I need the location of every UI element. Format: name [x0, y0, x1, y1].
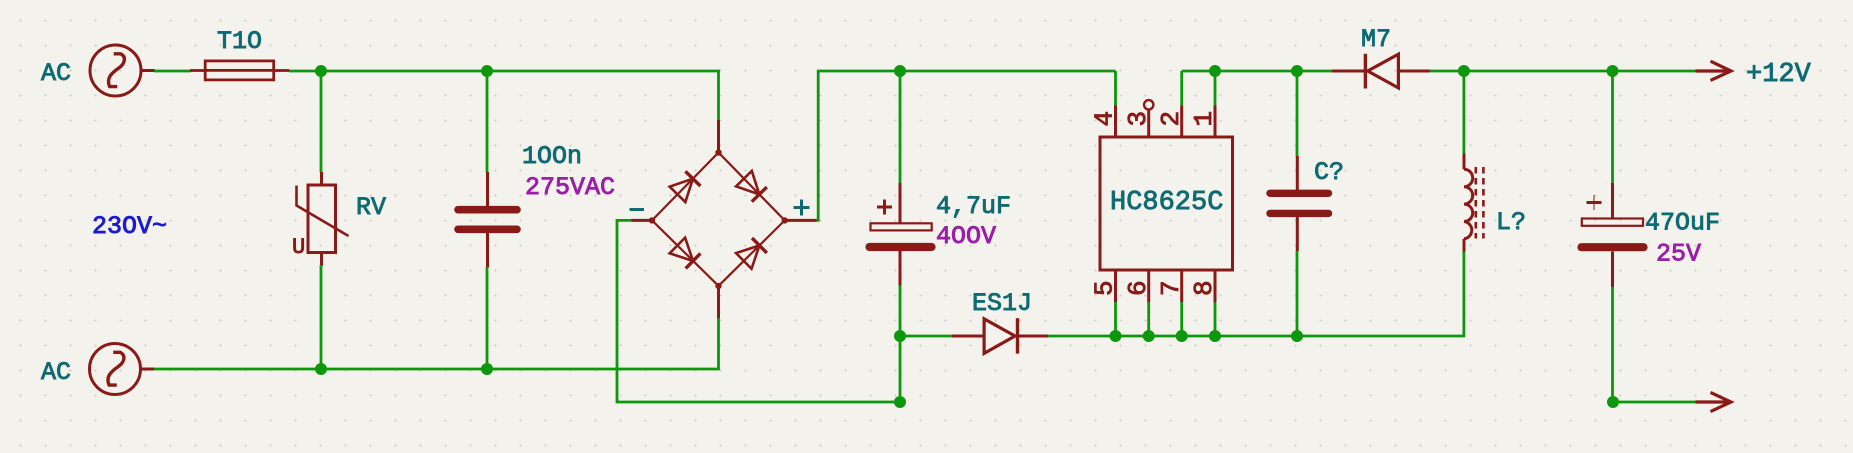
- bridge diode bottom-left: [670, 238, 701, 269]
- bridge diode top-right: [736, 171, 767, 202]
- pin 2: [1180, 106, 1183, 138]
- junction pin5: [1110, 330, 1122, 342]
- op IC U1 HC8625C body: [1100, 100, 1233, 302]
- wire pin7 drop: [1180, 302, 1183, 336]
- svg-text:1: 1: [1189, 111, 1219, 127]
- svg-text:ES1J: ES1J: [972, 289, 1032, 318]
- svg-text:7: 7: [1156, 280, 1186, 296]
- junction RV bottom: [315, 363, 327, 375]
- svg-text:5: 5: [1090, 280, 1120, 296]
- diode ES1J: [952, 318, 1049, 353]
- wire 100n bottom: [486, 267, 489, 369]
- svg-text:3: 3: [1123, 111, 1153, 127]
- junction ES1J tap: [894, 330, 906, 342]
- bridge node bottom: [715, 283, 721, 289]
- junction C? bottom: [1291, 330, 1303, 342]
- svg-text:L?: L?: [1496, 208, 1526, 237]
- pin 1: [1214, 106, 1217, 138]
- bridge diode bottom-right: [736, 238, 767, 269]
- plus polarity mark: [877, 206, 892, 209]
- wire L? top: [1463, 71, 1466, 154]
- bridge node right: [782, 217, 788, 223]
- wire 100n top: [486, 71, 489, 173]
- bridge minus mark: [630, 208, 645, 211]
- wire bottom rail RV to 100n: [321, 368, 487, 371]
- return output arrow: [1696, 392, 1732, 411]
- wire 4.7uF column to bottom rail: [899, 336, 902, 402]
- wire V1 to fuse: [154, 70, 191, 73]
- wire L? top rail to 470uF: [1464, 70, 1613, 73]
- wire 4.7uF top: [899, 71, 902, 184]
- wire pin4 riser: [1114, 71, 1117, 106]
- junction pin6: [1143, 330, 1155, 342]
- svg-text:HC8625C: HC8625C: [1110, 188, 1223, 218]
- inductor L?: [1464, 154, 1483, 252]
- capacitor 4.7uF: [870, 183, 932, 286]
- pin 3 (stub): [1147, 110, 1150, 138]
- junction 4.7uF top: [894, 65, 906, 77]
- svg-text:6: 6: [1123, 280, 1153, 296]
- pin 8: [1214, 270, 1217, 302]
- svg-text:2: 2: [1156, 111, 1186, 127]
- wire top rail pin2 to M7: [1182, 70, 1333, 73]
- junction 470uF top: [1607, 65, 1619, 77]
- svg-text:RV: RV: [356, 193, 386, 222]
- wire pin2 riser: [1180, 71, 1183, 106]
- junction pin1 top: [1209, 65, 1221, 77]
- wire C? top: [1296, 71, 1299, 157]
- wire mid rail ES1J to L bottom: [1048, 251, 1464, 336]
- svg-text:23OV~: 23OV~: [92, 212, 167, 241]
- wire bottom rail to return arrow: [1613, 401, 1696, 404]
- svg-text:275VAC: 275VAC: [525, 173, 615, 202]
- wire 4.7uF bottom: [899, 286, 902, 337]
- svg-text:1OOn: 1OOn: [522, 142, 582, 171]
- junction bottom rail at 4.7uF: [894, 396, 906, 408]
- wire pin8 drop: [1214, 302, 1217, 336]
- svg-text:AC: AC: [41, 59, 71, 88]
- svg-text:4: 4: [1090, 111, 1120, 127]
- +12V output arrow: [1696, 61, 1732, 80]
- wire RV bottom: [320, 265, 323, 369]
- wire fuse to RV node: [289, 70, 321, 73]
- svg-text:4,7uF: 4,7uF: [936, 192, 1011, 221]
- svg-text:47OuF: 47OuF: [1645, 209, 1720, 238]
- bridge plus mark: [794, 200, 810, 216]
- wire 470uF top: [1611, 71, 1614, 184]
- pin 4: [1114, 106, 1117, 138]
- wire RV top: [320, 71, 323, 173]
- pin 3 unconnected circle: [1144, 100, 1153, 109]
- capacitor C?: [1270, 156, 1329, 251]
- pin 5: [1114, 270, 1117, 302]
- ferrite core dashes: [1475, 167, 1478, 239]
- wire bottom rail V2 to RV: [154, 368, 321, 371]
- pin 6: [1147, 270, 1150, 302]
- wire bottom rail 100n to bridge corner: [487, 318, 719, 369]
- svg-text:AC: AC: [41, 358, 71, 387]
- svg-text:T1O: T1O: [217, 27, 262, 56]
- capacitor 100n: [458, 172, 517, 268]
- svg-text:M7: M7: [1361, 25, 1391, 54]
- bridge node top: [715, 149, 721, 155]
- wire pin5 drop: [1114, 302, 1117, 336]
- ac source V2 (bottom): [90, 344, 155, 395]
- wire top rail to +12V arrow: [1613, 70, 1696, 73]
- wire 470uF bottom: [1611, 287, 1614, 402]
- bridge node left: [649, 217, 655, 223]
- junction C? top: [1291, 65, 1303, 77]
- svg-text:C?: C?: [1314, 158, 1344, 187]
- bridge rectifier D1: [632, 120, 817, 318]
- wire pin1 riser: [1214, 71, 1217, 106]
- svg-text:+12V: +12V: [1746, 60, 1812, 90]
- junction RV top: [315, 65, 327, 77]
- junction 100n top: [481, 65, 493, 77]
- wire C? bottom: [1296, 251, 1299, 336]
- junction pin8: [1209, 330, 1221, 342]
- bridge diode top-left: [670, 171, 701, 202]
- svg-text:U: U: [292, 235, 305, 260]
- junction pin7: [1176, 330, 1188, 342]
- varistor RV: [297, 172, 349, 266]
- pin 7: [1180, 270, 1183, 302]
- wire bridge plus riser to top rail: [817, 71, 1116, 220]
- wire pin6 drop: [1147, 302, 1150, 336]
- wire M7 to L? top: [1430, 70, 1464, 73]
- ac source V1 (top): [90, 45, 155, 96]
- plus polarity mark: [1587, 201, 1602, 204]
- wire to ES1J anode: [900, 335, 953, 338]
- junction L? top: [1458, 65, 1470, 77]
- capacitor 470uF: [1582, 183, 1644, 287]
- fuse T10: [190, 61, 290, 80]
- wire bridge minus down to bottom rail: [617, 220, 900, 402]
- wire top rail 100n node to bridge corner: [487, 71, 719, 121]
- junction 100n bottom: [481, 363, 493, 375]
- diode M7: [1332, 54, 1430, 89]
- svg-text:8: 8: [1189, 280, 1219, 296]
- junction bottom rail at 470uF: [1607, 396, 1619, 408]
- svg-text:25V: 25V: [1656, 240, 1701, 269]
- wire top rail RV node to 100n node: [321, 70, 487, 73]
- svg-text:4OOV: 4OOV: [936, 222, 996, 251]
